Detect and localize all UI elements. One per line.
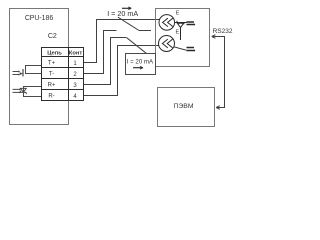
svg-text:E: E [176, 11, 180, 17]
svg-text:E: E [176, 29, 180, 35]
svg-text:Цепь: Цепь [47, 51, 62, 57]
svg-text:CPU-186: CPU-186 [25, 15, 54, 22]
svg-text:C2: C2 [48, 33, 57, 40]
svg-text:R+: R+ [48, 83, 56, 89]
svg-text:R-: R- [48, 94, 54, 100]
svg-text:RS232: RS232 [213, 28, 233, 35]
svg-text:I = 20 mA: I = 20 mA [127, 58, 154, 65]
svg-text:ПЭВМ: ПЭВМ [174, 103, 194, 110]
svg-text:I = 20 mA: I = 20 mA [107, 9, 138, 18]
svg-text:Конт: Конт [69, 51, 83, 57]
svg-text:T-: T- [49, 72, 54, 78]
svg-text:T+: T+ [48, 61, 56, 67]
